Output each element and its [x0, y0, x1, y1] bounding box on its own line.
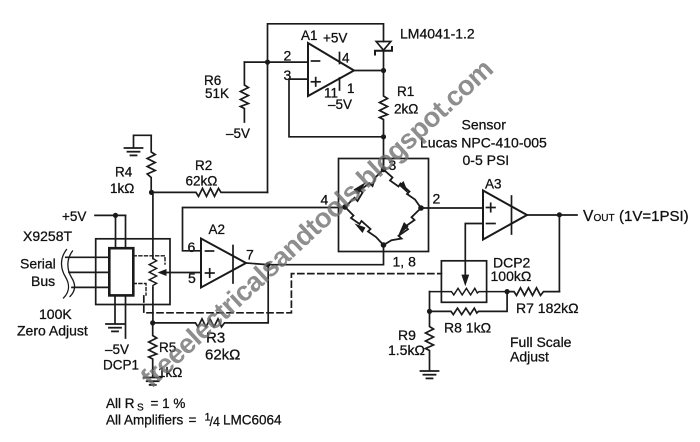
ground (R4 top)	[125, 135, 152, 155]
svg-text:1, 8: 1, 8	[393, 254, 417, 270]
dashed control bus DCP1 to DCP2	[144, 274, 442, 313]
svg-text:A1: A1	[301, 28, 318, 43]
svg-text:100K: 100K	[39, 306, 72, 322]
svg-text:LMC6064: LMC6064	[223, 413, 282, 428]
resistor R8	[430, 292, 508, 336]
svg-text:/4: /4	[210, 415, 220, 429]
svg-text:Adjust: Adjust	[510, 349, 549, 365]
svg-text:Sensor: Sensor	[462, 117, 507, 133]
node bridge right	[418, 205, 424, 211]
wire A1 pin2 input	[244, 61, 308, 63]
DCP1 box	[96, 239, 170, 305]
resistor R2	[152, 158, 268, 196]
svg-text:4: 4	[342, 51, 350, 66]
resistor R9	[388, 311, 434, 370]
svg-text:Lucas NPC-410-005: Lucas NPC-410-005	[420, 135, 547, 151]
note All Amplifiers = 1/4 LMC6064	[106, 412, 282, 430]
svg-text:1.5kΩ: 1.5kΩ	[388, 342, 425, 358]
wire to bridge pin3	[383, 137, 385, 170]
svg-text:R8 1kΩ: R8 1kΩ	[444, 320, 491, 336]
bridge arm top-left	[345, 170, 384, 208]
node +5V	[113, 213, 118, 218]
node bridge bottom	[381, 242, 387, 248]
resistor R5	[149, 323, 183, 380]
svg-text:1kΩ: 1kΩ	[110, 181, 134, 196]
svg-text:3: 3	[284, 67, 292, 83]
svg-text:Bus: Bus	[31, 273, 55, 289]
svg-text:Zero Adjust: Zero Adjust	[17, 323, 88, 339]
bridge sensor box	[339, 159, 429, 252]
wire A2 output	[246, 263, 268, 265]
bridge arm top-right	[384, 170, 422, 209]
svg-text:X9258T: X9258T	[23, 228, 72, 244]
svg-text:+5V: +5V	[323, 31, 347, 46]
wire DCP1 supply pins top	[115, 215, 117, 248]
wire A1 feedback top	[268, 24, 384, 193]
svg-text:=: =	[189, 413, 197, 428]
svg-text:= 1 %: = 1 %	[151, 396, 186, 411]
potentiometer DCP2	[430, 288, 508, 295]
node A2 output	[265, 262, 270, 267]
dashed chip-to-pot links	[133, 256, 165, 295]
resistor R6	[204, 62, 248, 122]
zener D1 LM4041-1.2	[375, 42, 392, 55]
svg-text:All R: All R	[106, 396, 135, 411]
ground (R5)	[144, 378, 162, 385]
svg-text:100kΩ: 100kΩ	[491, 268, 532, 284]
svg-text:All Amplifiers: All Amplifiers	[106, 413, 184, 428]
svg-text:Serial: Serial	[20, 256, 56, 272]
svg-text:+5V: +5V	[62, 209, 86, 224]
wire DCP1 pot bottom	[152, 288, 154, 323]
svg-text:R1: R1	[397, 84, 414, 99]
resistor R1	[380, 71, 419, 137]
wire bridge pin2 to A3	[421, 207, 483, 209]
svg-text:OUT: OUT	[594, 213, 615, 224]
svg-text:–5V: –5V	[226, 126, 250, 141]
svg-text:51K: 51K	[205, 86, 229, 101]
resistor R3	[153, 265, 269, 364]
op-amp A1	[301, 28, 355, 112]
potentiometer DCP1 100K	[149, 192, 156, 287]
svg-text:R9: R9	[398, 327, 416, 343]
svg-text:5: 5	[188, 270, 196, 286]
resistor R7	[507, 288, 579, 316]
ground (DCP1)	[106, 324, 124, 331]
ground (R9)	[421, 371, 439, 378]
wire DCP2 left lead down	[429, 292, 431, 312]
svg-text:R7 182kΩ: R7 182kΩ	[516, 300, 579, 316]
label VOUT (1V=1PSI)	[583, 208, 689, 225]
bridge top stub	[383, 159, 385, 170]
svg-text:V: V	[583, 208, 594, 225]
svg-text:62kΩ: 62kΩ	[205, 347, 240, 364]
svg-text:freeelectricalsandtools.blogsp: freeelectricalsandtools.blogspot.com	[135, 53, 499, 394]
node R8/R9	[427, 309, 432, 314]
node R4/R2	[149, 190, 154, 195]
bridge arm bottom-left	[345, 207, 384, 245]
wire DCP1 ground pin	[114, 295, 116, 323]
svg-text:A3: A3	[485, 177, 502, 192]
wire zener to output node	[383, 51, 385, 71]
note All RS = 1%	[106, 396, 185, 414]
svg-text:2: 2	[284, 48, 292, 64]
wire A1 output	[354, 70, 384, 72]
node R3/R5	[150, 320, 155, 325]
op-amp A3	[483, 177, 527, 240]
svg-text:0-5 PSI: 0-5 PSI	[463, 152, 510, 168]
resistor R4	[110, 135, 155, 196]
wire A2 output to bridge pins 1,8	[268, 245, 384, 265]
bus squiggle marks	[61, 250, 74, 299]
svg-text:LM4041-1.2: LM4041-1.2	[400, 26, 475, 42]
node R1 bottom	[381, 134, 386, 139]
bridge arm bottom-right	[384, 208, 422, 245]
node bridge top	[381, 167, 387, 173]
node pin2 junction	[265, 60, 270, 65]
wire +5V feed	[95, 214, 126, 216]
wire serial bus lines	[66, 257, 110, 287]
svg-text:62kΩ: 62kΩ	[186, 174, 218, 189]
DCP1 chip body	[109, 248, 133, 295]
svg-text:R2: R2	[195, 158, 212, 173]
wire A2 pin6 feedback to bridge pin4	[183, 208, 346, 251]
DCP2 box	[441, 261, 486, 303]
svg-text:–5V: –5V	[328, 97, 352, 112]
wire VOUT node to R7	[558, 215, 560, 292]
wire A1 pin3 feedback	[289, 79, 384, 137]
svg-text:1: 1	[347, 81, 355, 96]
wire A3 minus to DCP2 wiper	[461, 224, 483, 287]
svg-text:–5V: –5V	[105, 342, 129, 357]
svg-text:R4: R4	[115, 165, 133, 180]
node bridge left	[342, 204, 348, 210]
svg-text:(1V=1PSI): (1V=1PSI)	[619, 208, 689, 225]
svg-text:2: 2	[433, 191, 441, 207]
svg-text:A2: A2	[209, 222, 226, 237]
node R7/R8	[505, 289, 510, 294]
node A1 output	[381, 68, 386, 73]
wire DCP1 -5V pin	[125, 295, 127, 338]
node VOUT	[557, 212, 562, 217]
DCP1 wiper arrow	[158, 269, 202, 276]
wire A3 output to VOUT	[527, 214, 577, 216]
svg-text:6: 6	[188, 239, 196, 255]
op-amp A2	[201, 222, 246, 288]
